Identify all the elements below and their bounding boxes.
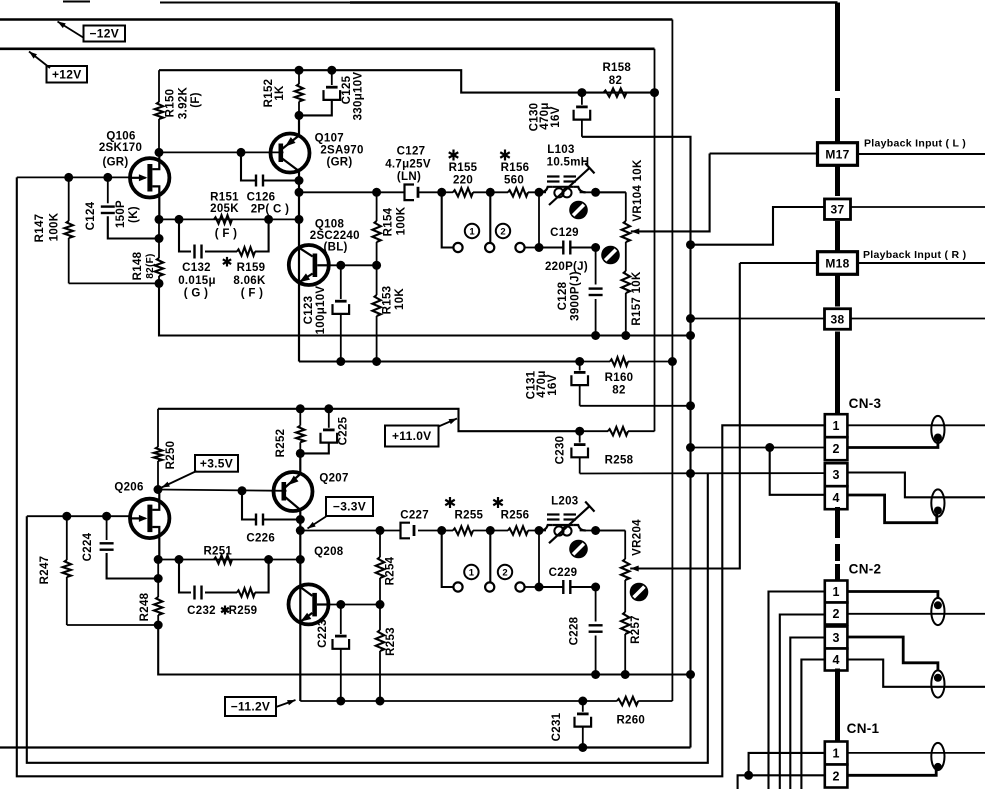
R247 label (39, 556, 51, 585)
svg-text:CN-3: CN-3 (849, 396, 882, 411)
wire lower signal row (300, 530, 625, 532)
R157 label (631, 271, 643, 326)
wire upper signal row (299, 191, 626, 193)
wire M17 left (710, 152, 817, 154)
-12V supply rail (0, 18, 672, 21)
capacitor C226 (242, 491, 300, 526)
svg-text:−3.3V: −3.3V (333, 500, 366, 514)
svg-text:R254: R254 (385, 556, 397, 585)
resistor R157 (622, 271, 630, 336)
C125 label (341, 72, 365, 121)
C230 label (555, 436, 567, 465)
wire Q108 emitter supply row (299, 360, 580, 362)
svg-text:C128: C128 (557, 281, 569, 310)
R256 label (493, 497, 529, 522)
resistor R151 (214, 215, 232, 223)
wire CN-3 pin3 right (847, 473, 985, 498)
svg-text:Q108: Q108 (315, 219, 345, 231)
wire VR104 wiper to M17 (631, 154, 710, 232)
resistor R259 (237, 588, 255, 596)
wire emitter row to R260 (583, 700, 617, 702)
wire R147 bottom row (69, 282, 159, 284)
node R247 top (62, 512, 71, 521)
node lower source row left (154, 555, 163, 564)
node C224 bottom join (154, 574, 163, 583)
node R254 top (376, 526, 385, 535)
wire CN-2 pin4 left (801, 660, 824, 789)
R251 label (203, 546, 232, 558)
node CN-1 pin1 pin2 join (744, 771, 753, 780)
node C129 right (591, 243, 600, 252)
svg-text:1: 1 (832, 585, 839, 599)
+3.5V label callout (162, 455, 239, 488)
+12V supply rail (0, 47, 655, 50)
svg-text:1: 1 (832, 747, 839, 761)
CN-3 label (849, 396, 882, 411)
node R152 top (295, 66, 304, 75)
svg-text:82: 82 (612, 385, 625, 397)
R151 label (210, 191, 239, 240)
-12V label callout (58, 22, 126, 42)
wire lower gate row (27, 515, 131, 517)
node lower feedback branch right (264, 555, 273, 564)
svg-text:3: 3 (832, 631, 839, 645)
node C124 bottom join (155, 234, 164, 243)
node Q107 collector row (295, 188, 304, 197)
node C231 bottom (578, 743, 587, 752)
node R248 bottom (154, 621, 163, 630)
wire emitter row to R160 (580, 361, 610, 363)
capacitor C231 (575, 701, 592, 748)
node C230 row on common bus (686, 469, 695, 478)
wire M17 right (858, 153, 985, 155)
node C124 top (103, 173, 112, 182)
wire 37 right (850, 206, 985, 208)
capacitor C125 (299, 70, 340, 115)
node L103 right (591, 188, 600, 197)
R248 label (139, 592, 151, 621)
svg-text:VR204: VR204 (632, 519, 644, 556)
svg-text:C129: C129 (550, 227, 579, 239)
svg-text:R148: R148 (132, 251, 144, 280)
svg-text:R258: R258 (605, 455, 634, 467)
Q206 label (114, 482, 143, 494)
svg-text:100K: 100K (49, 212, 61, 241)
Q106 label (99, 131, 142, 169)
node R253 bottom (376, 697, 385, 706)
capacitor C126 (241, 152, 299, 186)
node lower switch branch 2 top (486, 526, 495, 535)
wire CN-2 pin2 right (847, 613, 985, 615)
svg-text:C229: C229 (549, 567, 578, 579)
resistor R248 (154, 560, 162, 626)
node C126 branch (237, 148, 246, 157)
transistor Q106 (130, 152, 169, 219)
R258 label (605, 455, 634, 467)
svg-text:C126: C126 (247, 191, 276, 203)
CN-2 label (849, 562, 882, 577)
+11.0V label callout (385, 419, 457, 447)
C123 label (303, 286, 327, 335)
VR204 label (632, 519, 644, 556)
node C129 left (535, 243, 544, 252)
svg-text:82(F): 82(F) (145, 253, 156, 278)
connector spine above CN-2 (835, 564, 840, 581)
C126 label (247, 191, 290, 215)
transistor Q206 (130, 490, 169, 560)
switch position label 1 (465, 224, 479, 238)
svg-text:2: 2 (832, 442, 839, 456)
svg-text:2P( C ): 2P( C ) (251, 203, 290, 215)
svg-text:205K: 205K (210, 203, 239, 215)
wire long bottom common line (0, 746, 691, 748)
wire gate row to Q106 (17, 176, 131, 178)
resistor R247 (63, 516, 71, 625)
wire CN-3 pin4 right shield (847, 495, 936, 523)
R155 label (449, 150, 478, 187)
inductor L203 (540, 502, 594, 544)
svg-text:R147: R147 (34, 214, 46, 243)
R154 label (383, 206, 408, 236)
svg-text:R158: R158 (602, 62, 631, 74)
adjustment screw upper 2 (601, 246, 620, 265)
node lower feedback branch left (175, 555, 184, 564)
node R157 bottom (621, 331, 630, 340)
svg-text:( G ): ( G ) (184, 288, 209, 300)
node C123 top (336, 261, 345, 270)
wire Q206 drain to Q207 base (158, 490, 287, 491)
svg-text:C232: C232 (187, 605, 216, 617)
inductor L103 (540, 163, 594, 205)
lower switch position label 2 (498, 565, 512, 579)
wire C232 R259 branch (179, 560, 269, 593)
wire CN-2 pin1 right shield (847, 592, 938, 600)
svg-text:10K: 10K (394, 288, 406, 310)
svg-text:0.015μ: 0.015μ (178, 275, 216, 287)
node R252 top (296, 404, 305, 413)
svg-text:( F ): ( F ) (241, 288, 264, 300)
VR104 label (632, 159, 644, 222)
svg-text:R153: R153 (382, 286, 394, 315)
shielded cable CN-2 a (931, 598, 944, 625)
resistor R155 (453, 188, 473, 196)
svg-text:R157 10K: R157 10K (631, 271, 643, 326)
svg-text:4: 4 (832, 653, 839, 667)
svg-text:(F): (F) (190, 92, 202, 108)
wire common bus drop to bottom (27, 474, 708, 763)
node Q206 drain (154, 485, 163, 494)
C229 label (549, 567, 578, 579)
wire upper supply bus (159, 70, 655, 92)
wire Q206 source row (158, 559, 300, 561)
resistor R251 (214, 555, 232, 563)
capacitor C229 (539, 580, 596, 594)
svg-text:16V: 16V (547, 374, 559, 395)
switch position label 2 (496, 224, 510, 238)
svg-text:330μ10V: 330μ10V (353, 72, 365, 121)
wire lower supply bus (158, 409, 580, 431)
svg-text:8.06K: 8.06K (233, 275, 266, 287)
svg-text:C132: C132 (182, 262, 211, 274)
capacitor C227 (401, 523, 415, 539)
svg-text:C124: C124 (85, 201, 97, 230)
Q207 label (319, 473, 348, 485)
svg-text:560: 560 (504, 175, 524, 187)
node Q207 collector row (296, 526, 305, 535)
capacitor C230 (571, 431, 588, 473)
svg-text:−11.2V: −11.2V (231, 700, 271, 714)
wire 38 right (850, 318, 985, 320)
resistor R159 (237, 247, 255, 255)
node Q106 drain (155, 148, 164, 157)
-11.2V label callout (225, 697, 296, 716)
-3.3V label callout (308, 497, 374, 529)
wire upper gate row (17, 177, 825, 776)
C227 label (400, 510, 429, 522)
svg-text:R251: R251 (203, 546, 232, 558)
node CN-3 pin2 link (765, 443, 774, 452)
capacitor C128 (589, 248, 603, 336)
R152 label (263, 79, 286, 108)
wire CN-3 pin2 right shield (847, 441, 938, 448)
svg-text:R151: R151 (210, 191, 239, 203)
svg-text:CN-2: CN-2 (849, 562, 882, 577)
wire CN-3 pin2 to pin4 (770, 448, 825, 495)
svg-text:+3.5V: +3.5V (200, 457, 233, 471)
R150 value label (165, 87, 203, 120)
wire 37 left (691, 207, 826, 245)
svg-text:R250: R250 (165, 441, 177, 470)
svg-text:R259: R259 (229, 605, 258, 617)
connector CN-1 (825, 742, 848, 788)
node R153 bottom (372, 357, 381, 366)
node L203 left (535, 526, 544, 535)
node C123 bottom (336, 357, 345, 366)
wire CN-1 pin1 left (749, 753, 825, 775)
svg-text:VR104 10K: VR104 10K (632, 159, 644, 222)
node upper ground bus right (686, 331, 695, 340)
node emitter row at R160 (575, 357, 584, 366)
capacitor C223 (333, 605, 350, 702)
connector spine 38 to CN-3 (835, 332, 840, 415)
svg-text:Q206: Q206 (114, 482, 143, 494)
capacitor C130 (574, 93, 591, 137)
node R152 C125 junction (295, 111, 304, 120)
resistor R150 (155, 70, 163, 152)
node R147 top (64, 173, 73, 182)
svg-text:R255: R255 (455, 510, 484, 522)
svg-text:Q106: Q106 (106, 131, 135, 143)
svg-text:2SK170: 2SK170 (99, 142, 142, 154)
Q107 label (315, 133, 364, 169)
connector CN-2 (825, 581, 848, 671)
svg-text:C231: C231 (551, 712, 563, 741)
svg-text:220P(J): 220P(J) (545, 261, 588, 273)
node C228 bottom (591, 670, 600, 679)
wire C230 to CN-3 pin 3 row (580, 472, 825, 474)
wire M18 left (740, 262, 816, 264)
svg-text:38: 38 (831, 312, 845, 326)
svg-text:2: 2 (832, 770, 839, 784)
svg-text:−12V: −12V (89, 27, 119, 41)
C231 label (551, 712, 563, 741)
svg-text:4: 4 (832, 491, 839, 505)
wire CN-2 pin1 left (769, 592, 825, 789)
C228 label (569, 616, 581, 645)
resistor R152 (295, 70, 303, 115)
svg-text:R156: R156 (501, 162, 530, 174)
node lower ground bus right (686, 670, 695, 679)
R160 label (605, 372, 634, 397)
connector spine dashed segment (835, 66, 840, 122)
C132 label (178, 262, 216, 300)
R148 label (132, 251, 156, 280)
resistor R147 (65, 177, 73, 283)
svg-text:3.92K: 3.92K (178, 87, 190, 120)
transistor Q208 (289, 531, 329, 702)
transistor Q207 (274, 453, 313, 530)
svg-text:2SA970: 2SA970 (320, 145, 363, 157)
wire CN-2 pin2 left (780, 615, 825, 789)
node C223 bottom (336, 697, 345, 706)
C128 label (557, 271, 582, 321)
C232 label (187, 605, 216, 617)
node emitter row at R260 (578, 697, 587, 706)
svg-text:C225: C225 (338, 416, 350, 445)
node C230 top (575, 427, 584, 436)
svg-text:C224: C224 (82, 532, 94, 561)
capacitor C131 (571, 362, 588, 406)
node R160 right on -12V drop (668, 357, 677, 366)
C130 value label (529, 102, 563, 131)
node source row at Q207 collector (296, 555, 305, 564)
lower switch contact 3 (515, 582, 539, 591)
resistor R256 (508, 526, 528, 534)
node C229 left (535, 583, 544, 592)
svg-text:100K: 100K (396, 206, 408, 235)
node C131 row on common bus (686, 401, 695, 410)
svg-text:+12V: +12V (52, 67, 82, 81)
node 37 wire on common bus (686, 240, 695, 249)
node R257 bottom (621, 670, 630, 679)
wire M18 right (858, 262, 985, 264)
svg-text:R160: R160 (605, 372, 634, 384)
svg-text:R257: R257 (630, 615, 642, 644)
svg-text:C228: C228 (569, 616, 581, 645)
node C128 bottom (591, 331, 600, 340)
R254 label (385, 556, 397, 585)
svg-text:220: 220 (453, 175, 473, 187)
wire 38 left (691, 318, 826, 320)
adjustment screw lower 1 (569, 540, 588, 559)
Playback input (L) label (864, 138, 966, 150)
terminal M17 (818, 143, 858, 166)
Playback Input (R) label (863, 249, 966, 261)
svg-text:C125: C125 (341, 75, 353, 104)
node R148 bottom (155, 279, 164, 288)
svg-text:1: 1 (469, 227, 475, 238)
wire Q106 drain to Q107 base (159, 151, 284, 153)
svg-text:(GR): (GR) (102, 157, 128, 169)
wire L203 to VR204 (596, 530, 626, 532)
connector spine CN-3 to CN-2 solid (835, 507, 840, 521)
switch contact wire 1 (442, 192, 463, 252)
svg-text:(BL): (BL) (323, 242, 347, 254)
svg-text:1K: 1K (274, 85, 286, 101)
C225 label (338, 416, 350, 445)
wire CN-2 pin4 right (847, 660, 985, 687)
svg-text:R248: R248 (139, 592, 151, 621)
svg-text:82: 82 (609, 75, 622, 87)
Q108 label (310, 219, 360, 254)
resistor R258 (580, 427, 655, 435)
wire CN-3 pin1 right (847, 424, 985, 426)
L203 label (551, 496, 578, 508)
svg-text:3900P(J): 3900P(J) (570, 271, 582, 321)
capacitor C232 (195, 586, 202, 600)
R253 label (385, 627, 397, 656)
R250 label (165, 441, 177, 470)
svg-text:M17: M17 (825, 147, 849, 161)
wire R248 to lower ground bus (158, 625, 690, 675)
svg-text:Playback Input ( L ): Playback Input ( L ) (864, 138, 966, 150)
lower switch contact wire 1 (442, 531, 463, 592)
connector spine above M17 (835, 118, 840, 142)
node lower switch branch 1 top (437, 526, 446, 535)
svg-text:C230: C230 (555, 436, 567, 465)
svg-text:R150: R150 (165, 89, 177, 118)
wire lower main row to C229 row (538, 531, 540, 588)
R259 label (221, 605, 257, 617)
node C226 branch (238, 486, 247, 495)
+12V label callout (29, 52, 87, 83)
connector spine CN-3 to CN-2 dashed (835, 521, 840, 566)
svg-text:L203: L203 (551, 496, 578, 508)
resistor R156 (508, 188, 528, 196)
capacitor C124 (101, 177, 159, 238)
L103 label (547, 144, 590, 169)
svg-text:2: 2 (502, 568, 507, 579)
node C125 top (327, 66, 336, 75)
R255 label (445, 497, 483, 522)
svg-text:M18: M18 (825, 256, 849, 270)
R158 label (602, 62, 631, 87)
shielded cable CN-3 b (931, 489, 944, 516)
R260 label (616, 715, 645, 727)
R252 label (275, 429, 287, 458)
resistor R250 (154, 409, 162, 490)
node 38 wire on common bus (686, 314, 695, 323)
lower switch contact wire 2 (485, 531, 494, 592)
capacitor C228 (589, 587, 603, 675)
capacitor C123 (333, 265, 350, 361)
C226 label (246, 533, 275, 545)
wire Q208 base row (329, 604, 381, 606)
svg-text:C127: C127 (397, 146, 426, 158)
R257 label (630, 615, 642, 644)
C224 label (82, 532, 94, 561)
svg-text:1: 1 (469, 568, 475, 579)
capacitor C225 (300, 409, 337, 454)
terminal M18 (818, 252, 858, 275)
wire VR204 wiper to M18 (630, 263, 740, 569)
adjustment screw upper 1 (569, 201, 588, 220)
svg-text:(GR): (GR) (326, 157, 352, 169)
node switch branch 1 top (437, 188, 446, 197)
node C130 top (577, 88, 586, 97)
node C226 right (296, 515, 305, 524)
node source row at Q107 collector (295, 215, 304, 224)
